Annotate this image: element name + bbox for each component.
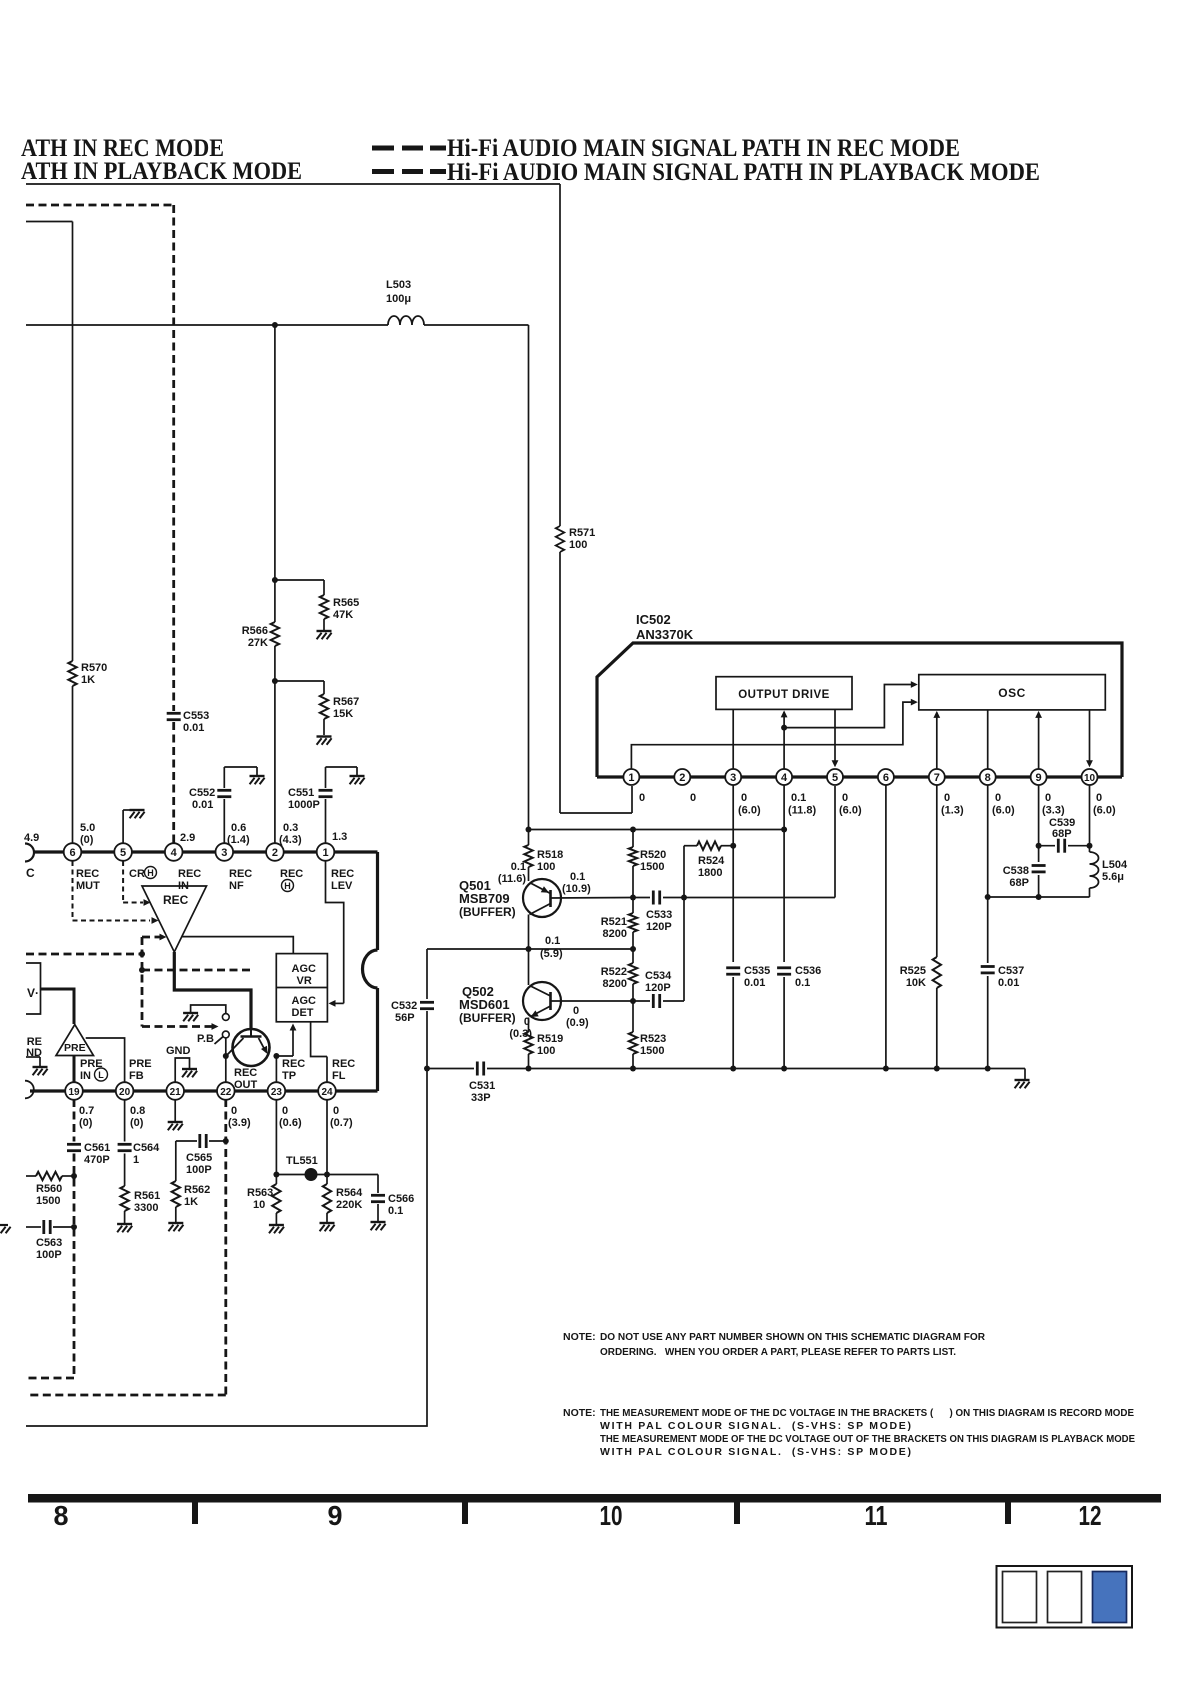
svg-text:2: 2 — [272, 847, 278, 859]
wire V bracket — [26, 963, 41, 1014]
svg-text:DET: DET — [292, 1007, 314, 1019]
wire pin3 stem up — [223, 799, 225, 843]
svg-text:(6.0): (6.0) — [1093, 805, 1116, 817]
capacitor C565 — [198, 1134, 201, 1148]
svg-text:REC: REC — [280, 868, 303, 880]
capacitor C534 — [652, 994, 655, 1008]
svg-text:6: 6 — [69, 847, 75, 859]
svg-text:IC502: IC502 — [636, 612, 671, 627]
wire C536 to bus — [783, 977, 785, 1069]
IC502 pin 3 — [725, 769, 741, 785]
wire IC502 pin3 to OUTPUT DRIVE — [732, 709, 734, 769]
svg-text:R520: R520 — [640, 849, 666, 861]
wire supply horizontal right — [424, 324, 529, 326]
wire R525 to bus — [936, 988, 938, 1069]
svg-text:L503: L503 — [386, 279, 411, 291]
svg-text:PRE: PRE — [129, 1058, 152, 1070]
capacitor C533 — [652, 891, 655, 905]
wire pin20 stem — [124, 1099, 126, 1142]
ground near C551 — [350, 775, 365, 777]
test point TL551 — [305, 1168, 318, 1181]
wire thick dashed to REC OUT — [142, 969, 250, 972]
svg-text:OUT: OUT — [234, 1079, 258, 1091]
svg-text:C535: C535 — [744, 965, 770, 977]
ruler tick 9-10 — [462, 1503, 468, 1525]
svg-text:MSB709: MSB709 — [459, 891, 510, 906]
IC502 pin 10 — [1082, 769, 1098, 785]
wire PRE feedback — [86, 1038, 125, 1082]
ground below R562 — [168, 1222, 183, 1224]
svg-text:REC: REC — [282, 1058, 305, 1070]
svg-text:0.3: 0.3 — [283, 822, 298, 834]
svg-text:68P: 68P — [1009, 877, 1029, 889]
node junction R564 — [324, 1172, 330, 1178]
svg-text:120P: 120P — [646, 921, 672, 933]
nav square 2 — [1048, 1572, 1082, 1623]
svg-text:0.1: 0.1 — [511, 861, 526, 873]
svg-text:0.01: 0.01 — [744, 977, 765, 989]
svg-text:1000P: 1000P — [288, 799, 320, 811]
node junction pin3-R524 — [730, 843, 736, 849]
wire C531 line left — [427, 1068, 474, 1070]
pin 5 CR — [114, 843, 132, 861]
svg-text:NF: NF — [229, 880, 244, 892]
svg-text:0: 0 — [1096, 792, 1102, 804]
svg-text:C552: C552 — [189, 787, 215, 799]
svg-text:1500: 1500 — [36, 1195, 60, 1207]
nav square 3 active — [1093, 1572, 1127, 1623]
wire dashed pin5 to REC — [122, 861, 124, 903]
node junction pin22-transistor — [223, 1053, 229, 1059]
ground below PRE GND — [33, 1066, 48, 1068]
svg-text:4: 4 — [781, 772, 788, 784]
svg-text:AN3370K: AN3370K — [636, 627, 694, 642]
svg-text:1: 1 — [133, 1154, 139, 1166]
svg-text:R560: R560 — [36, 1183, 62, 1195]
svg-text:19: 19 — [68, 1087, 80, 1098]
wire R564 to ground — [326, 1213, 328, 1222]
op-amp REC — [142, 886, 207, 952]
wire C539 line left — [1039, 845, 1055, 847]
svg-text:NOTE:: NOTE: — [563, 1407, 596, 1419]
wire pin23 lower stem — [275, 1099, 277, 1184]
svg-text:R565: R565 — [333, 597, 359, 609]
wire pin19 dashed stem — [73, 1099, 76, 1142]
wire C565 arm — [176, 1140, 197, 1142]
wire R570 to pin6 — [72, 686, 74, 843]
svg-text:8: 8 — [985, 772, 991, 784]
svg-text:REC: REC — [331, 868, 354, 880]
svg-text:C533: C533 — [646, 909, 672, 921]
svg-text:0: 0 — [639, 792, 645, 804]
svg-text:9: 9 — [1036, 772, 1042, 784]
svg-text:(0.9): (0.9) — [566, 1017, 589, 1029]
svg-text:0: 0 — [231, 1105, 237, 1117]
svg-text:4.9: 4.9 — [24, 832, 39, 844]
ground below R565 — [317, 630, 332, 632]
svg-text:(BUFFER): (BUFFER) — [459, 905, 516, 919]
svg-text:R521: R521 — [601, 916, 627, 928]
svg-text:2.9: 2.9 — [180, 832, 195, 844]
node junction pin10 tank — [1087, 843, 1093, 849]
ruler bar — [28, 1494, 1161, 1503]
svg-text:DO NOT USE ANY PART NUMBER SHO: DO NOT USE ANY PART NUMBER SHOWN ON THIS… — [600, 1331, 985, 1343]
svg-text:V·: V· — [27, 986, 39, 1000]
svg-text:5: 5 — [120, 847, 126, 859]
wire R520 stub — [632, 830, 634, 848]
node junction pin8 y897 — [985, 894, 991, 900]
wire pin19 dashed stem lower — [73, 1154, 76, 1379]
svg-text:5.0: 5.0 — [80, 822, 95, 834]
svg-text:(BUFFER): (BUFFER) — [459, 1011, 516, 1025]
svg-text:(0.7): (0.7) — [330, 1117, 353, 1129]
svg-text:0.1: 0.1 — [545, 935, 560, 947]
svg-text:C532: C532 — [391, 1000, 417, 1012]
op-amp PRE — [56, 1025, 94, 1056]
legend dash symbol REC — [372, 146, 394, 151]
svg-text:R525: R525 — [900, 965, 926, 977]
node dashed junction 954 — [139, 951, 145, 957]
wire pin3 stem — [732, 785, 734, 962]
wire pin4 to OSC arrow — [784, 685, 914, 728]
pin 2 REC H — [266, 843, 284, 861]
svg-text:(6.0): (6.0) — [992, 805, 1015, 817]
capacitor C537 — [981, 965, 995, 968]
capacitor C552 — [217, 789, 231, 792]
wire pin1 stem up — [325, 799, 327, 843]
transistor Q501 circle — [523, 879, 561, 917]
wire thick dashed vertical to pin4 — [172, 722, 175, 843]
wire Q502 collector up — [528, 949, 530, 985]
wire C538 top stub — [1038, 846, 1040, 862]
resistor R570 — [68, 661, 76, 686]
svg-text:H: H — [284, 881, 291, 891]
svg-text:R567: R567 — [333, 696, 359, 708]
svg-text:Hi-Fi AUDIO MAIN SIGNAL PATH I: Hi-Fi AUDIO MAIN SIGNAL PATH IN PLAYBACK… — [447, 159, 1040, 186]
svg-text:(0): (0) — [80, 834, 94, 846]
svg-text:3300: 3300 — [134, 1202, 158, 1214]
capacitor C536 — [777, 966, 791, 969]
svg-text:68P: 68P — [1052, 828, 1072, 840]
wire pin8 to C537 — [987, 897, 989, 963]
wire right vertical upper segment — [559, 184, 561, 526]
wire V to PRE apex thick — [41, 989, 75, 1024]
svg-text:33P: 33P — [471, 1092, 491, 1104]
wire R565 to ground — [323, 619, 325, 630]
node junction R519 bottom — [526, 1066, 532, 1072]
svg-text:27K: 27K — [248, 637, 268, 649]
node junction y949 right — [630, 946, 636, 952]
ground near PB switch — [183, 1012, 198, 1014]
wire IC502 pin9 arrow up — [1038, 713, 1040, 770]
svg-text:H: H — [147, 868, 154, 878]
capacitor C566 — [371, 1194, 385, 1197]
wire R521-R522 — [632, 932, 634, 963]
switch contact lower — [222, 1031, 229, 1038]
svg-text:21: 21 — [170, 1087, 182, 1098]
wire dashed pin6 to REC — [72, 861, 74, 921]
node junction x684 y897 — [681, 895, 687, 901]
IC502 pin 7 — [929, 769, 945, 785]
wire REC output thick — [174, 952, 251, 1029]
ground below R564 — [320, 1222, 335, 1224]
wire R520 to base node — [632, 866, 634, 898]
node junction R525 bottom — [934, 1066, 940, 1072]
wire thick dashed from page edge — [26, 953, 142, 956]
svg-text:100P: 100P — [186, 1164, 212, 1176]
svg-text:(6.0): (6.0) — [839, 805, 862, 817]
node junction C535 bottom — [730, 1066, 736, 1072]
resistor R522 — [629, 963, 637, 984]
svg-text:(4.3): (4.3) — [279, 834, 302, 846]
resistor R566 — [271, 622, 279, 646]
pin 1 REC LEV — [317, 843, 335, 861]
capacitor C553 — [167, 712, 181, 715]
wire R524 to pin3 stem — [721, 845, 733, 847]
svg-text:C564: C564 — [133, 1142, 160, 1154]
svg-text:0.1: 0.1 — [570, 871, 585, 883]
wire C532 vertical upper — [426, 949, 428, 999]
ruler tick 10-11 — [734, 1503, 740, 1525]
svg-text:1800: 1800 — [698, 867, 722, 879]
svg-text:1: 1 — [322, 847, 328, 859]
svg-text:0.01: 0.01 — [183, 722, 204, 734]
IC502 pin 9 — [1031, 769, 1047, 785]
svg-text:15K: 15K — [333, 708, 353, 720]
wire pin1 to AGC DET — [326, 861, 344, 1003]
wire supply horizontal left — [26, 324, 388, 326]
IC502 pin bus — [597, 775, 1122, 778]
wire pin7 stem — [936, 785, 938, 957]
svg-text:MUT: MUT — [76, 880, 100, 892]
wire pin22 dashed exit — [26, 1394, 226, 1397]
svg-text:THE MEASUREMENT MODE OF THE DC: THE MEASUREMENT MODE OF THE DC VOLTAGE I… — [600, 1407, 1134, 1419]
capacitor C551 — [319, 789, 333, 792]
svg-text:1: 1 — [628, 772, 634, 784]
wire R523 stub — [632, 1001, 634, 1032]
IC502 pin 1 — [623, 769, 639, 785]
svg-text:0: 0 — [741, 792, 747, 804]
wire pin5 stem — [834, 786, 836, 898]
IC501 top pin bus — [33, 850, 378, 853]
svg-text:8200: 8200 — [603, 978, 627, 990]
svg-text:100μ: 100μ — [386, 293, 411, 305]
svg-text:0: 0 — [842, 792, 848, 804]
svg-text:0: 0 — [690, 792, 696, 804]
svg-text:22: 22 — [220, 1087, 232, 1098]
svg-text:C: C — [26, 866, 35, 880]
wire IC502 pin8 to OSC — [987, 710, 989, 769]
wire IC502 pin1 to OSC arrow — [631, 702, 914, 769]
svg-text:REC: REC — [163, 893, 189, 907]
svg-text:AGC: AGC — [292, 995, 317, 1007]
pin 22 REC OUT — [217, 1082, 235, 1100]
wire C551 to ground arm — [325, 767, 327, 788]
svg-text:FB: FB — [129, 1070, 144, 1082]
wire pin8 stem — [987, 785, 989, 897]
partial ground page edge — [0, 1224, 8, 1226]
svg-text:4: 4 — [171, 847, 178, 859]
svg-text:5: 5 — [832, 772, 838, 784]
capacitor C563 — [42, 1220, 45, 1234]
svg-text:TP: TP — [282, 1070, 296, 1082]
transistor Q501 internals — [549, 890, 552, 907]
wire C534 right up — [663, 1000, 684, 1002]
svg-text:(1.4): (1.4) — [227, 834, 250, 846]
wire trunk to R566 — [274, 580, 276, 622]
svg-text:R571: R571 — [569, 527, 595, 539]
svg-text:NOTE:: NOTE: — [563, 1331, 596, 1343]
pin 4 REC IN — [165, 843, 183, 861]
wire left vertical to R570 — [72, 222, 74, 662]
block AGC VR / AGC DET — [276, 954, 327, 1022]
node junction C565 — [223, 1138, 229, 1144]
svg-text:0.1: 0.1 — [388, 1205, 403, 1217]
wire R524 left stub — [684, 845, 697, 847]
svg-text:OSC: OSC — [998, 686, 1026, 700]
svg-text:REC: REC — [229, 868, 252, 880]
wire pin23 to AGC DET arrow — [276, 1055, 293, 1057]
capacitor C538 — [1032, 864, 1046, 867]
svg-text:C563: C563 — [36, 1237, 62, 1249]
wire C566 branch — [377, 1175, 379, 1194]
IC501 bottom pin bus — [30, 1089, 378, 1092]
wire long vertical to R518 net — [528, 325, 530, 830]
svg-text:0: 0 — [282, 1105, 288, 1117]
capacitor C531 — [476, 1062, 479, 1076]
svg-text:FL: FL — [332, 1070, 346, 1082]
wire thick dashed into apex — [142, 936, 160, 939]
wire R562 to ground — [175, 1207, 177, 1222]
resistor R564 — [323, 1184, 331, 1213]
svg-text:10K: 10K — [906, 977, 926, 989]
svg-text:10: 10 — [600, 1500, 623, 1531]
svg-text:100: 100 — [537, 861, 555, 873]
svg-text:C536: C536 — [795, 965, 821, 977]
svg-text:LEV: LEV — [331, 880, 353, 892]
node junction trunk-supply — [272, 322, 278, 328]
svg-text:0: 0 — [995, 792, 1001, 804]
svg-text:0: 0 — [944, 792, 950, 804]
resistor R521 — [629, 913, 637, 932]
inductor L503 — [388, 316, 424, 325]
wire R522 to base node — [632, 984, 634, 1001]
wire trunk upper — [274, 325, 276, 580]
node junction Q502 base — [630, 998, 636, 1004]
node junction pin6 bottom — [883, 1066, 889, 1072]
svg-text:R522: R522 — [601, 966, 627, 978]
wire R563 to ground — [275, 1213, 277, 1224]
wire PRE GND arm — [26, 1056, 40, 1058]
wire pin10 stem — [1089, 785, 1091, 846]
svg-text:VR: VR — [297, 975, 312, 987]
svg-text:100: 100 — [569, 539, 587, 551]
svg-text:(11.8): (11.8) — [788, 805, 816, 817]
IC502 pin 2 — [674, 769, 690, 785]
svg-text:MSD601: MSD601 — [459, 997, 510, 1012]
svg-text:2: 2 — [679, 772, 685, 784]
wire C539 line right — [1068, 845, 1090, 847]
ruler tick 11-12 — [1005, 1503, 1011, 1525]
wire down-left exit — [26, 1069, 427, 1427]
block OSC — [919, 675, 1106, 710]
svg-text:(6.0): (6.0) — [738, 805, 761, 817]
wire Q501 collector down — [528, 915, 530, 950]
wire pin22 dashed stem — [224, 1099, 227, 1395]
page-edge pin arc bottom — [25, 1081, 34, 1099]
svg-text:R566: R566 — [242, 625, 268, 637]
resistor R562 — [172, 1181, 180, 1207]
svg-text:8200: 8200 — [603, 928, 627, 940]
nav square 1 — [1003, 1572, 1037, 1623]
resistor R524 — [697, 842, 721, 850]
wire thick dashed REC path top — [26, 204, 174, 207]
svg-text:WITH PAL COLOUR SIGNAL. (S-VH: WITH PAL COLOUR SIGNAL. (S-VHS: SP MODE) — [600, 1420, 911, 1432]
node junction C563 — [71, 1224, 77, 1230]
wire dashed arrow to switch — [142, 1025, 212, 1028]
wire IC502 pin7 arrow up — [936, 713, 938, 770]
node trunk-R565 junction — [272, 577, 278, 583]
svg-text:8: 8 — [54, 1500, 69, 1531]
resistor R523 — [629, 1032, 637, 1054]
wire pin19 dashed exit — [26, 1377, 74, 1380]
IC502 pin 8 — [980, 769, 996, 785]
wire pin9 stem — [1038, 785, 1040, 846]
node junction pin23 arm — [273, 1053, 279, 1059]
svg-text:0: 0 — [573, 1005, 579, 1017]
wire pin6 stem — [885, 785, 887, 1069]
svg-text:1K: 1K — [81, 674, 95, 686]
IC502 pin 6 — [878, 769, 894, 785]
svg-text:REC: REC — [76, 868, 99, 880]
svg-text:1500: 1500 — [640, 861, 664, 873]
svg-text:REC: REC — [234, 1067, 257, 1079]
svg-text:GND: GND — [166, 1045, 191, 1057]
wire C538 to y897 — [1038, 875, 1040, 897]
wire REC to AGC VR — [182, 937, 293, 954]
ground below R563 — [269, 1224, 284, 1226]
wire R519 to bus — [528, 1054, 530, 1069]
svg-text:(0.6): (0.6) — [279, 1117, 302, 1129]
svg-text:WITH PAL COLOUR SIGNAL. (S-VH: WITH PAL COLOUR SIGNAL. (S-VHS: SP MODE) — [600, 1446, 911, 1458]
ground below R561 — [117, 1223, 132, 1225]
svg-text:470P: 470P — [84, 1154, 110, 1166]
legend dash symbol PB — [372, 169, 394, 174]
wire trunk to R567 junction — [274, 646, 276, 681]
svg-text:(3.9): (3.9) — [228, 1117, 251, 1129]
wire pin24 lower stem — [326, 1099, 328, 1184]
svg-text:AGC: AGC — [292, 963, 317, 975]
resistor R561 — [120, 1186, 128, 1211]
svg-text:R563: R563 — [247, 1187, 273, 1199]
ground below R567 — [317, 735, 332, 737]
svg-text:3: 3 — [221, 847, 227, 859]
node junction C538 bottom — [1036, 894, 1042, 900]
node junction C531 left — [424, 1066, 430, 1072]
svg-text:THE MEASUREMENT MODE OF THE DC: THE MEASUREMENT MODE OF THE DC VOLTAGE O… — [600, 1433, 1135, 1445]
node junction R560 — [71, 1173, 77, 1179]
wire L504 to y897 — [1089, 888, 1091, 897]
svg-text:3: 3 — [730, 772, 736, 784]
svg-text:(1.3): (1.3) — [941, 805, 964, 817]
wire C563 to stem — [53, 1226, 74, 1228]
svg-text:C553: C553 — [183, 710, 209, 722]
wire pin24 stem — [326, 1057, 328, 1083]
wire y949 horizontal — [427, 948, 633, 950]
pin 24 REC FL — [318, 1082, 336, 1100]
svg-text:REC: REC — [178, 868, 201, 880]
wire R560 to stem — [62, 1175, 74, 1177]
